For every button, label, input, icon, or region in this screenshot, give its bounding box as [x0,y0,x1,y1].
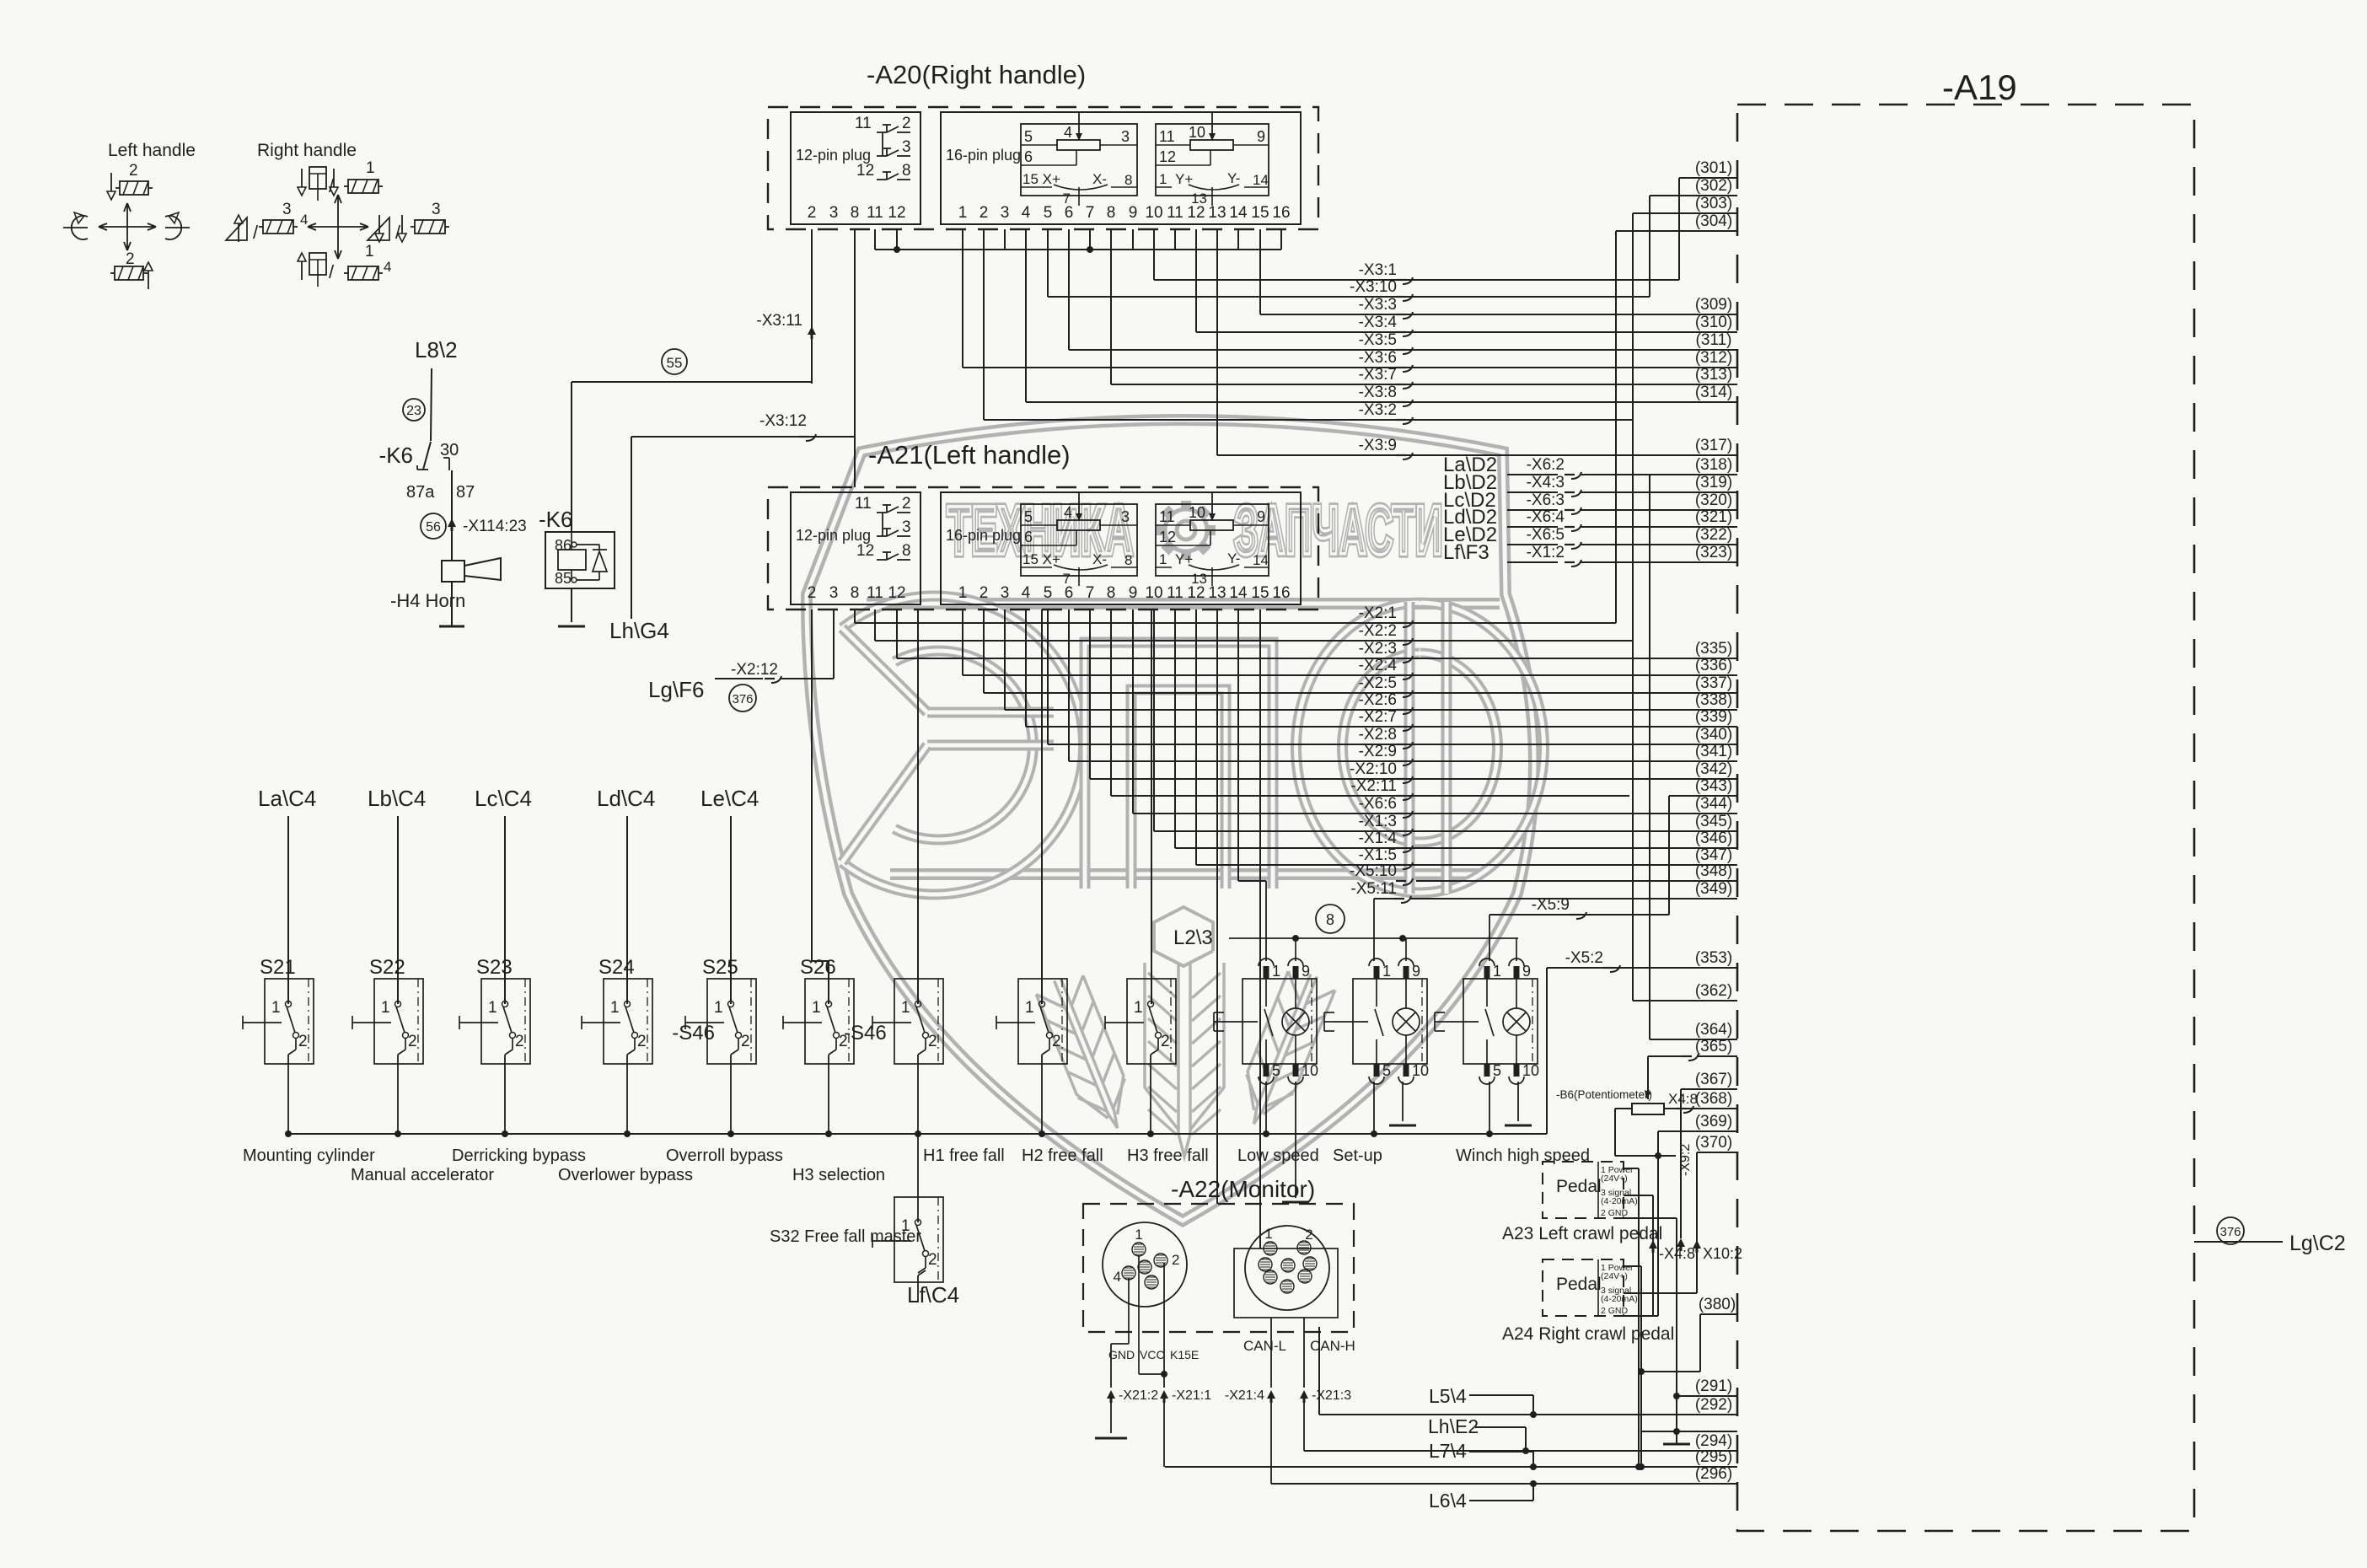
svg-text:Lf\F3: Lf\F3 [1443,541,1489,564]
svg-text:12: 12 [1187,584,1205,602]
svg-text:4: 4 [1114,1269,1121,1285]
svg-text:X-: X- [1092,551,1107,567]
svg-text:-X3:7: -X3:7 [1359,366,1397,384]
svg-text:-X3:8: -X3:8 [1359,384,1397,401]
svg-text:2: 2 [928,1251,937,1269]
svg-text:10: 10 [1302,1062,1318,1079]
svg-text:16-pin plug: 16-pin plug [946,527,1021,544]
net Lg\C2 [2217,1217,2244,1244]
svg-text:-X3:3: -X3:3 [1359,296,1397,314]
svg-text:-S46: -S46 [844,1022,887,1044]
svg-text:2: 2 [980,584,989,602]
svg-text:-X3:1: -X3:1 [1359,261,1397,279]
svg-text:12: 12 [856,162,874,180]
svg-text:3: 3 [432,201,441,218]
svg-text:La\C4: La\C4 [258,786,316,811]
svg-text:H2 free fall: H2 free fall [1022,1146,1103,1165]
svg-text:1: 1 [901,999,910,1017]
svg-text:(343): (343) [1695,777,1732,795]
svg-text:3: 3 [1121,508,1130,525]
X5:10 / X5:11 right segments [1265,881,1267,961]
lamp/switch boxes [1243,979,1317,1064]
svg-text:3: 3 [902,138,911,156]
svg-text:-X6:2: -X6:2 [1527,456,1565,474]
svg-text:Pedal: Pedal [1556,1177,1602,1196]
svg-text:Set-up: Set-up [1333,1146,1382,1165]
svg-text:3: 3 [1001,204,1010,222]
svg-text:2: 2 [1305,1227,1312,1243]
svg-text:(365): (365) [1695,1038,1732,1055]
svg-text:-X1:5: -X1:5 [1359,846,1397,864]
svg-text:2: 2 [980,204,989,222]
svg-text:2: 2 [808,584,817,602]
svg-text:-X2:1: -X2:1 [1359,604,1397,622]
svg-text:-S46: -S46 [672,1022,715,1044]
svg-text:-X2:8: -X2:8 [1359,726,1397,744]
svg-text:2: 2 [808,204,817,222]
svg-text:(24V+): (24V+) [1601,1271,1628,1281]
svg-text:-X5:11: -X5:11 [1350,880,1397,898]
svg-text:A24 Right crawl pedal: A24 Right crawl pedal [1502,1324,1674,1344]
svg-text:5: 5 [1272,1062,1280,1079]
staircase verticals near A19 [1632,213,1634,1001]
svg-text:2 GND: 2 GND [1601,1306,1629,1316]
svg-text:1: 1 [958,584,968,602]
svg-text:S22: S22 [369,956,405,979]
svg-text:Left handle: Left handle [108,141,196,160]
svg-text:12: 12 [856,542,874,560]
svg-text:(344): (344) [1695,795,1732,813]
svg-text:8: 8 [1124,172,1132,188]
svg-text:9: 9 [1412,963,1420,980]
svg-text:11: 11 [867,204,883,222]
svg-text:Overlower bypass: Overlower bypass [558,1166,693,1184]
svg-text:-X2:12: -X2:12 [731,661,778,679]
svg-text:13: 13 [1208,584,1226,602]
svg-text:S24: S24 [598,956,635,979]
svg-text:-X4:3: -X4:3 [1527,474,1565,491]
svg-text:(309): (309) [1695,296,1732,314]
svg-text:(4-20mA): (4-20mA) [1601,1294,1638,1304]
svg-text:2: 2 [902,115,911,132]
svg-text:55: 55 [667,355,683,371]
svg-text:S32 Free fall master: S32 Free fall master [770,1227,921,1246]
X2/X6/X1/X5 rows from A21 to A19 [854,609,856,623]
svg-text:(322): (322) [1695,526,1732,544]
svg-text:Y-: Y- [1227,170,1240,186]
svg-text:-X3:11: -X3:11 [756,312,802,330]
svg-text:16-pin plug: 16-pin plug [946,147,1021,164]
svg-text:1: 1 [1159,171,1167,187]
svg-text:Lh\E2: Lh\E2 [1428,1415,1479,1437]
svg-text:2: 2 [1052,1033,1061,1050]
svg-text:1: 1 [366,159,375,177]
svg-text:6: 6 [1065,204,1074,222]
svg-text:-X9:2: -X9:2 [1678,1144,1693,1176]
svg-text:X4:8: X4:8 [1668,1091,1698,1107]
svg-text:(353): (353) [1695,949,1732,967]
X3 rows from A20 to A19 [1153,229,1155,280]
svg-text:5: 5 [1044,584,1053,602]
svg-text:H1 free fall: H1 free fall [923,1146,1005,1165]
svg-text:12-pin plug: 12-pin plug [796,527,871,544]
svg-text:Pedal: Pedal [1556,1275,1602,1294]
svg-text:L5\4: L5\4 [1429,1385,1467,1407]
svg-text:GND: GND [1108,1348,1135,1361]
svg-text:/: / [253,222,259,243]
svg-text:Winch high speed: Winch high speed [1456,1146,1590,1165]
svg-text:5: 5 [1382,1062,1391,1079]
(304) stub [1616,230,1737,232]
svg-text:(320): (320) [1695,491,1732,509]
svg-text:1: 1 [488,999,497,1017]
svg-text:1: 1 [1135,1227,1142,1243]
svg-text:Lg\C2: Lg\C2 [2289,1232,2346,1255]
svg-text:-X2:10: -X2:10 [1350,760,1397,778]
X3:11 wire to horn relay [811,229,813,384]
svg-text:87a: 87a [406,483,435,502]
svg-text:(337): (337) [1695,674,1732,692]
svg-text:(339): (339) [1695,708,1732,726]
svg-text:9: 9 [1522,963,1531,980]
svg-text:1: 1 [610,999,620,1017]
svg-text:(294): (294) [1695,1432,1732,1450]
svg-text:-X6:4: -X6:4 [1527,508,1565,526]
svg-text:30: 30 [440,441,459,459]
svg-text:(349): (349) [1695,880,1732,898]
4-pin round connector [1103,1222,1187,1307]
svg-text:(291): (291) [1695,1377,1732,1395]
svg-text:1: 1 [1264,1226,1272,1242]
svg-text:Derricking bypass: Derricking bypass [452,1146,586,1165]
svg-text:(313): (313) [1695,366,1732,384]
svg-text:L8\2: L8\2 [415,337,458,362]
svg-text:4: 4 [300,212,308,228]
svg-text:11: 11 [1167,204,1183,222]
svg-text:8: 8 [1124,552,1132,568]
svg-text:2: 2 [741,1033,750,1050]
svg-text:CAN-H: CAN-H [1310,1338,1355,1354]
row 362/364 [1633,1000,1737,1001]
svg-text:(348): (348) [1695,862,1732,880]
svg-text:10: 10 [1145,204,1162,222]
svg-text:(364): (364) [1695,1021,1732,1039]
svg-text:1: 1 [812,999,821,1017]
svg-text:11: 11 [867,584,883,602]
svg-text:2: 2 [298,1033,308,1050]
svg-text:5: 5 [1044,204,1053,222]
svg-text:16: 16 [1272,584,1290,602]
svg-text:7: 7 [1086,204,1095,222]
svg-text:-X6:3: -X6:3 [1527,491,1565,509]
svg-text:-X3:12: -X3:12 [759,412,807,430]
svg-text:8: 8 [851,584,860,602]
svg-text:-A19: -A19 [1942,67,2017,107]
svg-text:-X5:2: -X5:2 [1565,949,1603,967]
svg-text:L7\4: L7\4 [1429,1440,1467,1462]
svg-text:Lg\F6: Lg\F6 [648,677,705,702]
svg-text:2: 2 [515,1033,524,1050]
svg-text:-B6(Potentiometer): -B6(Potentiometer) [1556,1088,1652,1101]
svg-text:-X2:4: -X2:4 [1359,657,1398,674]
svg-text:14: 14 [1253,552,1269,568]
svg-text:(310): (310) [1695,314,1732,331]
svg-text:1: 1 [381,999,390,1017]
svg-text:56: 56 [426,520,441,534]
svg-text:(321): (321) [1695,508,1732,526]
svg-text:X10:2: X10:2 [1703,1245,1742,1262]
svg-text:(302): (302) [1695,177,1732,195]
svg-text:VCC: VCC [1140,1348,1165,1361]
svg-text:(369): (369) [1695,1113,1732,1130]
svg-text:8: 8 [1107,584,1116,602]
svg-text:6: 6 [1024,148,1033,165]
switches S21-S26 and H1-H3 [265,979,314,1064]
svg-text:CAN-L: CAN-L [1243,1338,1286,1354]
svg-text:K15E: K15E [1170,1348,1199,1361]
svg-text:(303): (303) [1695,195,1732,212]
A21 to monitor CAN wires [1216,609,1218,1204]
svg-text:3: 3 [282,201,292,218]
svg-text:-K6: -K6 [539,507,572,532]
svg-text:-X2:6: -X2:6 [1359,691,1397,709]
svg-text:-X21:1: -X21:1 [1172,1388,1211,1403]
svg-text:-X2:5: -X2:5 [1359,674,1397,692]
ref circle 23 [403,399,425,421]
svg-text:-X21:2: -X21:2 [1119,1388,1158,1403]
svg-text:L6\4: L6\4 [1429,1490,1467,1512]
svg-text:9: 9 [1302,963,1310,980]
svg-text:3: 3 [1001,584,1010,602]
feeds from A21 to S26/H1/H2/H3 [811,609,813,961]
svg-text:1: 1 [271,999,281,1017]
svg-text:6: 6 [1065,584,1074,602]
svg-text:1: 1 [1159,551,1167,567]
svg-text:85: 85 [555,570,572,587]
svg-text:S26: S26 [800,956,836,979]
svg-text:(370): (370) [1695,1134,1732,1152]
svg-text:H3 selection: H3 selection [792,1166,885,1184]
svg-text:S23: S23 [476,956,513,979]
svg-text:-X3:9: -X3:9 [1359,437,1397,454]
svg-text:(296): (296) [1695,1465,1732,1483]
svg-text:(317): (317) [1695,437,1732,454]
svg-text:4: 4 [1022,204,1031,222]
svg-text:14: 14 [1253,172,1269,188]
svg-text:2: 2 [637,1033,647,1050]
svg-text:23: 23 [406,404,421,418]
svg-text:(323): (323) [1695,544,1732,561]
svg-text:4: 4 [1064,124,1072,141]
svg-text:(368): (368) [1695,1090,1732,1108]
svg-text:H3 free fall: H3 free fall [1127,1146,1209,1165]
svg-text:Right handle: Right handle [257,141,357,160]
svg-text:-X2:9: -X2:9 [1359,743,1397,760]
svg-text:-H4 Horn: -H4 Horn [390,590,465,611]
svg-text:14: 14 [1229,204,1248,222]
svg-text:(342): (342) [1695,760,1732,778]
svg-text:15: 15 [1251,584,1269,602]
svg-text:(346): (346) [1695,830,1732,847]
svg-text:-X2:7: -X2:7 [1359,708,1397,726]
svg-text:(292): (292) [1695,1396,1732,1414]
monitor wires [1128,1278,1130,1344]
svg-text:8: 8 [851,204,860,222]
svg-text:11: 11 [855,115,872,132]
svg-text:1: 1 [958,204,968,222]
lamp feed line [1229,937,1518,939]
svg-text:3: 3 [829,584,839,602]
svg-text:5: 5 [1024,508,1033,525]
svg-text:3: 3 [902,518,911,536]
svg-text:(301): (301) [1695,159,1732,177]
svg-text:-A21(Left handle): -A21(Left handle) [868,440,1071,470]
ref circle 56 [421,513,446,539]
svg-text:9: 9 [1257,508,1265,525]
svg-text:16: 16 [1272,204,1290,222]
svg-text:(341): (341) [1695,743,1732,760]
svg-text:10: 10 [1145,584,1162,602]
svg-text:1: 1 [1025,999,1034,1017]
svg-text:2: 2 [902,495,911,513]
svg-text:-X2:3: -X2:3 [1359,640,1397,658]
svg-text:-X1:3: -X1:3 [1359,813,1397,830]
svg-text:11: 11 [1159,508,1175,525]
svg-text:1: 1 [1272,963,1280,980]
svg-text:Ld\C4: Ld\C4 [597,786,655,811]
svg-text:1: 1 [1493,963,1501,980]
svg-text:(304): (304) [1695,212,1732,230]
svg-text:5: 5 [1024,128,1033,145]
svg-text:1: 1 [365,243,374,260]
svg-text:(314): (314) [1695,384,1732,401]
svg-text:X-: X- [1092,171,1107,187]
svg-text:-X6:5: -X6:5 [1527,526,1565,544]
svg-text:2: 2 [129,162,138,180]
svg-text:Manual accelerator: Manual accelerator [351,1166,494,1184]
svg-text:2 GND: 2 GND [1601,1208,1629,1218]
svg-text:10: 10 [1189,124,1205,141]
svg-text:(362): (362) [1695,982,1732,1000]
svg-text:2: 2 [1172,1252,1179,1268]
svg-text:Lb\C4: Lb\C4 [368,786,426,811]
svg-text:Lf\C4: Lf\C4 [907,1282,959,1308]
lamp grounds [1295,1082,1296,1198]
svg-text:86: 86 [555,537,572,554]
svg-text:1: 1 [1382,963,1391,980]
svg-text:13: 13 [1208,204,1226,222]
svg-text:9: 9 [1129,584,1138,602]
svg-text:Lc\C4: Lc\C4 [475,786,532,811]
svg-text:8: 8 [1326,911,1334,928]
svg-text:Overroll bypass: Overroll bypass [666,1146,783,1165]
svg-text:12-pin plug: 12-pin plug [796,147,871,164]
svg-text:4: 4 [1022,584,1031,602]
svg-text:12: 12 [1187,204,1205,222]
svg-text:-X114:23: -X114:23 [463,518,527,535]
svg-text:-X6:6: -X6:6 [1359,795,1397,813]
svg-text:-X5:9: -X5:9 [1532,896,1570,914]
svg-text:(338): (338) [1695,691,1732,709]
switch S32 free fall master [894,1197,943,1282]
svg-text:12: 12 [1159,148,1176,165]
svg-text:(335): (335) [1695,640,1732,658]
horn H4 [442,561,464,582]
svg-text:10: 10 [1189,504,1205,521]
svg-text:1: 1 [714,999,723,1017]
svg-text:(318): (318) [1695,456,1732,474]
svg-text:9: 9 [1257,128,1265,145]
svg-text:-A20(Right handle): -A20(Right handle) [867,60,1086,89]
svg-text:2: 2 [126,250,135,268]
svg-text:-X5:10: -X5:10 [1350,862,1397,880]
svg-text:-X1:2: -X1:2 [1527,544,1565,561]
svg-text:7: 7 [1086,584,1095,602]
svg-text:-K6: -K6 [379,443,413,468]
svg-text:-X3:10: -X3:10 [1350,278,1397,296]
svg-text:3: 3 [1121,128,1130,145]
row 365 to potentiometer [1647,1056,1649,1099]
svg-text:-X1:4: -X1:4 [1359,830,1398,847]
svg-text:-X3:5: -X3:5 [1359,331,1397,349]
svg-text:Lh\G4: Lh\G4 [609,618,669,643]
svg-text:-A22(Monitor): -A22(Monitor) [1171,1176,1315,1202]
svg-text:L2\3: L2\3 [1173,926,1213,949]
svg-text:(347): (347) [1695,846,1732,864]
svg-text:-X3:6: -X3:6 [1359,349,1397,367]
svg-text:-X2:2: -X2:2 [1359,622,1397,640]
svg-text:2: 2 [408,1033,417,1050]
svg-text:8: 8 [1107,204,1116,222]
svg-text:(380): (380) [1699,1296,1736,1313]
svg-text:87: 87 [456,483,475,502]
svg-text:(312): (312) [1695,349,1732,367]
svg-text:15: 15 [1251,204,1269,222]
svg-text:-X21:3: -X21:3 [1312,1388,1351,1403]
svg-text:S25: S25 [702,956,738,979]
svg-text:12: 12 [1159,529,1176,545]
svg-text:376: 376 [732,692,753,706]
svg-text:Le\C4: Le\C4 [700,786,759,811]
svg-text:-X2:11: -X2:11 [1350,777,1397,795]
svg-text:(340): (340) [1695,726,1732,744]
pedal boxes [1543,1162,1624,1218]
svg-text:2: 2 [1161,1033,1170,1050]
svg-text:11: 11 [1159,128,1175,145]
svg-text:S21: S21 [260,956,296,979]
svg-text:(319): (319) [1695,474,1732,491]
svg-text:9: 9 [1129,204,1138,222]
svg-text:14: 14 [1229,584,1248,602]
svg-text:11: 11 [1167,584,1183,602]
svg-text:12: 12 [888,204,905,222]
svg-text:4: 4 [1064,504,1072,521]
svg-text:Y-: Y- [1227,550,1240,567]
svg-text:/: / [329,261,335,282]
svg-text:11: 11 [855,495,872,513]
svg-text:(345): (345) [1695,813,1732,830]
svg-text:6: 6 [1024,529,1033,545]
svg-text:(336): (336) [1695,657,1732,674]
wire bus under A20 [875,249,1281,250]
svg-text:(311): (311) [1696,331,1732,349]
svg-text:8: 8 [902,542,911,560]
svg-text:-X3:2: -X3:2 [1359,401,1397,419]
svg-text:12: 12 [888,584,905,602]
watermark shield logo [807,420,1534,1221]
svg-text:(4-20mA): (4-20mA) [1601,1196,1638,1206]
svg-text:-X21:4: -X21:4 [1225,1388,1264,1403]
